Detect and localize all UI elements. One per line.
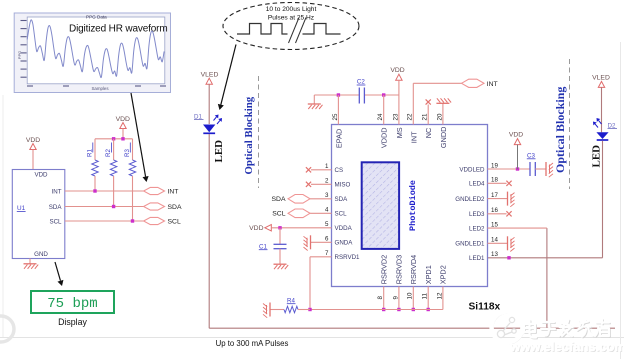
svg-text:MISO: MISO <box>335 182 351 189</box>
svg-text:14: 14 <box>491 237 498 244</box>
svg-text:INT: INT <box>168 189 179 196</box>
svg-text:www.elecfans.com: www.elecfans.com <box>509 339 624 354</box>
svg-text:LED2: LED2 <box>469 226 485 233</box>
svg-text:6: 6 <box>325 236 329 243</box>
svg-text:25: 25 <box>332 113 339 120</box>
svg-text:C2: C2 <box>357 79 365 86</box>
svg-text:U1: U1 <box>17 205 26 212</box>
svg-text:16: 16 <box>491 207 498 214</box>
svg-text:SDA: SDA <box>335 196 349 203</box>
svg-text:RSRVD3: RSRVD3 <box>395 255 404 284</box>
svg-text:19: 19 <box>491 162 498 169</box>
svg-text:7: 7 <box>325 250 329 257</box>
svg-text:11: 11 <box>422 293 429 300</box>
svg-text:PhotoDiode: PhotoDiode <box>408 180 418 231</box>
svg-text:Up to 300 mA Pulses: Up to 300 mA Pulses <box>216 339 289 348</box>
svg-text:23: 23 <box>392 113 399 120</box>
svg-text:17: 17 <box>491 192 498 199</box>
svg-text:RSRVD2: RSRVD2 <box>379 255 388 284</box>
svg-text:9: 9 <box>392 296 399 300</box>
svg-text:GNDD: GNDD <box>439 127 448 149</box>
svg-text:GNDLED2: GNDLED2 <box>455 196 485 203</box>
svg-text:PPG Data: PPG Data <box>86 14 107 19</box>
svg-text:NC: NC <box>424 128 433 139</box>
svg-text:RSRVD1: RSRVD1 <box>335 254 361 261</box>
svg-text:VDD: VDD <box>509 132 523 139</box>
svg-text:2: 2 <box>325 178 329 185</box>
svg-text:18: 18 <box>491 177 498 184</box>
svg-text:Optical Blocking: Optical Blocking <box>553 87 567 173</box>
svg-text:24: 24 <box>377 113 384 120</box>
svg-text:LED4: LED4 <box>469 181 485 188</box>
svg-text:20: 20 <box>436 113 443 120</box>
svg-text:CS: CS <box>335 167 344 174</box>
svg-text:GND: GND <box>34 251 48 258</box>
svg-text:VLED: VLED <box>201 71 219 78</box>
svg-text:SDA: SDA <box>272 196 286 203</box>
svg-text:Si118x: Si118x <box>469 302 501 313</box>
svg-text:VDDA: VDDA <box>335 225 353 232</box>
svg-text:22: 22 <box>407 113 414 120</box>
svg-text:21: 21 <box>422 113 429 120</box>
svg-text:PPG: PPG <box>17 51 22 59</box>
svg-text:MS: MS <box>395 127 404 138</box>
svg-text:Optical Blocking: Optical Blocking <box>243 96 255 174</box>
svg-text:LED1: LED1 <box>469 255 485 262</box>
svg-text:R4: R4 <box>287 297 295 304</box>
svg-text:5: 5 <box>325 221 329 228</box>
svg-text:75 bpm: 75 bpm <box>47 296 97 312</box>
svg-text:Pulses at 25 Hz: Pulses at 25 Hz <box>268 15 314 22</box>
svg-text:LED: LED <box>213 140 225 163</box>
svg-text:SDA: SDA <box>49 204 63 211</box>
svg-text:VDDD: VDDD <box>380 127 389 148</box>
svg-text:1: 1 <box>325 163 329 170</box>
svg-text:15: 15 <box>491 222 498 229</box>
svg-text:3: 3 <box>325 192 329 199</box>
svg-text:GNDLED1: GNDLED1 <box>455 241 485 248</box>
svg-text:SCL: SCL <box>272 211 285 218</box>
svg-text:VLED: VLED <box>592 75 610 82</box>
svg-text:SCL: SCL <box>49 218 62 225</box>
svg-text:12: 12 <box>436 292 443 299</box>
svg-text:INT: INT <box>52 188 62 195</box>
svg-text:SCL: SCL <box>335 211 348 218</box>
svg-text:8: 8 <box>377 296 384 300</box>
svg-text:VDDLED: VDDLED <box>459 166 485 173</box>
svg-text:INT: INT <box>409 131 418 143</box>
svg-text:RSRVD4: RSRVD4 <box>409 255 418 284</box>
svg-text:SDA: SDA <box>168 204 182 211</box>
svg-text:C3: C3 <box>527 152 535 159</box>
svg-text:4: 4 <box>325 207 329 214</box>
svg-text:XPD2: XPD2 <box>439 265 448 284</box>
svg-text:VDD: VDD <box>34 172 48 179</box>
svg-text:10 to 200us Light: 10 to 200us Light <box>266 6 317 13</box>
svg-text:10: 10 <box>407 292 414 299</box>
svg-text:C1: C1 <box>259 243 267 250</box>
svg-text:Display: Display <box>58 317 87 327</box>
svg-text:Samples: Samples <box>91 86 109 91</box>
svg-text:EPAD: EPAD <box>334 129 343 148</box>
svg-text:INT: INT <box>487 81 498 88</box>
svg-text:XPD1: XPD1 <box>424 265 433 284</box>
svg-text:SCL: SCL <box>168 219 181 226</box>
svg-text:GNDA: GNDA <box>335 240 354 247</box>
svg-text:VDD: VDD <box>390 67 404 74</box>
svg-text:LED3: LED3 <box>469 211 485 218</box>
svg-text:VDD: VDD <box>249 225 263 232</box>
svg-text:LED: LED <box>591 145 603 168</box>
svg-text:13: 13 <box>491 251 498 258</box>
